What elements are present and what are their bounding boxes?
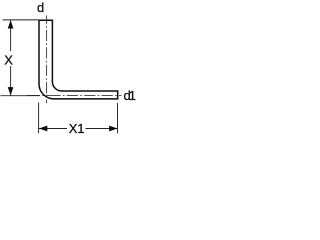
svg-text:X: X [4, 53, 13, 68]
svg-text:1: 1 [129, 88, 136, 103]
svg-text:d: d [37, 0, 44, 15]
svg-text:1: 1 [77, 121, 84, 136]
